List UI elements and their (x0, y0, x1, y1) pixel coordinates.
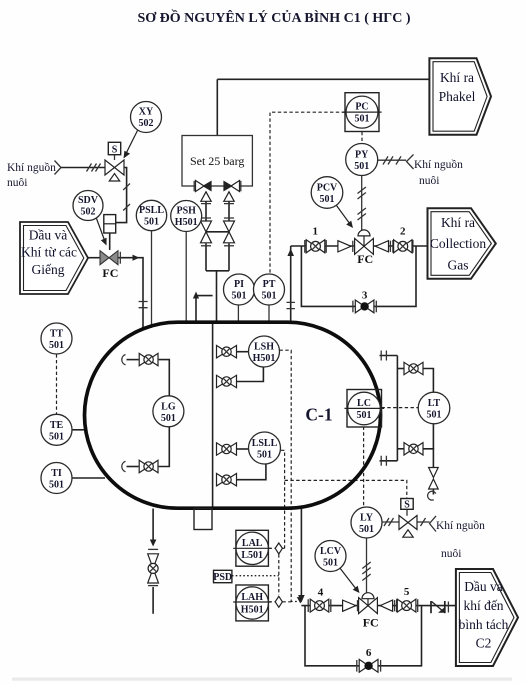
isolation valve PSV left leg (vertical bowtie) (201, 221, 212, 243)
wire dashed LAL to diamond (269, 547, 276, 549)
svg-text:XY: XY (139, 107, 154, 118)
wire dashed LC down to LY (363, 427, 365, 508)
svg-text:Khí nguồn: Khí nguồn (436, 519, 485, 532)
svg-text:khí đến: khí đến (463, 598, 503, 613)
instrument circle XY502 (131, 102, 162, 133)
wire from 3-way valve down to solenoid box (116, 168, 130, 223)
svg-text:TT: TT (50, 329, 64, 340)
svg-text:C-1: C-1 (305, 405, 332, 425)
tag SDV502 (78, 195, 99, 218)
wire dotted PSD interlock (232, 575, 279, 577)
wire standpipe branch 2 up to LSH (237, 367, 264, 381)
arrow PCV501 to control valve (337, 206, 354, 229)
tag TI501 (49, 468, 64, 491)
LT drain valve (two triangles) (429, 468, 439, 490)
instrument circle PY501 (346, 144, 378, 176)
wire PY to PCV control valve signal (358, 176, 366, 231)
flange tick after reducer (394, 600, 396, 611)
instrument circle PI501 (224, 274, 255, 305)
svg-text:LSLL: LSLL (252, 438, 278, 449)
instrument circle PSH H501 (171, 201, 202, 232)
svg-text:nuôi: nuôi (7, 177, 27, 189)
node Khi nguon nuoi left text (7, 161, 56, 189)
instrument circle PSLL501 (136, 200, 166, 230)
flag text Khi ra Phakel (439, 70, 476, 104)
flag text Khi ra Collection Gas (430, 215, 486, 273)
wire vessel liquid outlet down with arrow (298, 509, 305, 603)
instrument circle SDV502 (73, 191, 103, 221)
LG isolation valve bottom (139, 460, 158, 472)
wire dashed LSH interlock down (280, 350, 304, 603)
svg-text:Khí nguồn: Khí nguồn (7, 161, 56, 174)
flange tick after reducer (389, 241, 391, 252)
wire LT drain tail with cap (428, 489, 436, 500)
svg-text:PSD: PSD (213, 572, 232, 583)
instrument circle TI501 (41, 463, 72, 494)
svg-text:SDV: SDV (78, 195, 99, 206)
3-way valve XV on fuel gas line (105, 142, 124, 181)
standpipe valve LSH tap2 (217, 375, 237, 387)
svg-text:PI: PI (234, 279, 244, 290)
svg-text:LY: LY (360, 513, 374, 524)
wire PSH tap to vessel (185, 232, 187, 324)
wire dashed diamond to LSH line (282, 601, 291, 603)
tag XY502 (139, 107, 154, 130)
svg-text:PSLL: PSLL (139, 205, 164, 216)
wire standpipe branch to LSH (237, 351, 249, 353)
wire LY down to LCV valve signal (362, 538, 370, 593)
svg-text:H501: H501 (253, 353, 276, 364)
instrument circle TE501 (41, 414, 72, 445)
svg-text:Collection: Collection (430, 236, 486, 251)
tag TE501 (49, 420, 64, 443)
faint bottom caption band (12, 678, 512, 681)
wire bottom liquid line to C2 flag (301, 605, 458, 607)
wire stem solenoid box to SDV valve (109, 233, 111, 250)
valve 6 (bypass, closed) (357, 659, 381, 672)
wire PSV right leg (224, 192, 234, 271)
wire gas outlet riser with up arrow (287, 246, 295, 322)
wire dashed interlock to S box of LY valve (285, 480, 407, 498)
tag PC501 (355, 102, 370, 125)
instrument circle LY501 (351, 507, 382, 538)
wire level bridle riser (396, 356, 398, 461)
svg-text:501: 501 (320, 194, 335, 205)
svg-text:501: 501 (49, 480, 64, 491)
wire standpipe branch to LSLL (237, 448, 250, 450)
wire PSLL tap to vessel (151, 231, 153, 329)
svg-text:501: 501 (49, 432, 64, 443)
svg-text:TE: TE (50, 420, 64, 431)
wire flare header to Phakel flag (217, 78, 429, 80)
wire dashed TT to TE (56, 354, 58, 414)
wire level bridle bottom tap (380, 456, 398, 466)
svg-text:PT: PT (263, 279, 276, 290)
wire inlet pipe SDV valve to vessel with flow arrow (118, 255, 148, 330)
isolation valve PSV right leg (vertical bowtie) (224, 221, 235, 243)
svg-text:4: 4 (318, 587, 324, 599)
svg-text:S: S (112, 144, 118, 155)
vessel bottom nozzle box (194, 509, 212, 530)
PSV left on Set box (194, 181, 211, 202)
tag PSH H501 (175, 206, 198, 229)
tag PCV501 (317, 183, 338, 206)
svg-text:501: 501 (354, 161, 369, 172)
svg-text:H501: H501 (175, 217, 198, 228)
svg-text:PY: PY (355, 150, 369, 161)
svg-text:Giếng: Giếng (32, 262, 65, 277)
wire gas bypass with valve 3 (301, 246, 416, 306)
wire PSV equalizer between leg valves (206, 231, 229, 233)
svg-text:LSH: LSH (254, 342, 274, 353)
svg-text:5: 5 (404, 586, 410, 598)
flag text Dau va khi den binh tach C2 (459, 579, 509, 651)
instrument circle LSLL501 (249, 432, 281, 464)
svg-text:LT: LT (428, 398, 441, 409)
svg-text:501: 501 (262, 291, 277, 302)
reducer after PCV (375, 241, 388, 252)
wire dashed PC to PT (270, 112, 345, 273)
wire LG gauge loop top (122, 355, 170, 397)
LG isolation valve top (139, 353, 158, 365)
wire PI tap (237, 305, 239, 321)
svg-text:PCV: PCV (317, 183, 338, 194)
standpipe valve LSLL tap2 (217, 474, 237, 486)
svg-text:TI: TI (51, 468, 62, 479)
wire vessel drain with arrow (148, 509, 158, 550)
tag LAH H501 (241, 592, 264, 616)
standpipe valve LSH tap1 (217, 346, 237, 358)
svg-text:L501: L501 (241, 550, 263, 561)
3-way valve on LY fuel gas (399, 499, 417, 538)
instrument PC501 circle in square (342, 93, 381, 132)
svg-text:501: 501 (427, 410, 442, 421)
wire dashed LAH to diamond (269, 601, 276, 603)
tag LCV501 (320, 546, 342, 569)
svg-text:LC: LC (357, 398, 371, 409)
tag LY501 (359, 513, 374, 536)
svg-text:LAL: LAL (242, 538, 263, 549)
svg-text:Dầu và: Dầu và (29, 228, 68, 243)
valve 2 (globe) on gas line (393, 240, 413, 253)
wire main gas line to Collection flag (291, 245, 428, 247)
svg-text:501: 501 (257, 450, 272, 461)
valve 4 (globe) on liquid line (308, 599, 331, 612)
svg-text:Set 25 barg: Set 25 barg (190, 154, 244, 168)
vessel C-1 (85, 322, 381, 508)
control valve LCV with diaphragm FC (359, 593, 378, 614)
wire S box stem LY valve (406, 509, 408, 516)
svg-text:PSH: PSH (176, 206, 196, 217)
svg-text:Gas: Gas (448, 258, 469, 273)
instrument circle LSH H501 (249, 336, 280, 367)
svg-text:FC: FC (102, 266, 118, 280)
svg-text:C2: C2 (476, 636, 492, 651)
valve 5 (globe) on liquid line (397, 599, 418, 612)
svg-text:LG: LG (161, 402, 176, 413)
wire equalizer with up arrow (193, 292, 213, 323)
tag LG501 (161, 402, 176, 425)
bridle isolation valve top (404, 362, 423, 374)
diamond logic 1 (275, 543, 282, 554)
reducer before PCV (338, 241, 351, 252)
svg-text:501: 501 (232, 291, 247, 302)
reducer after LCV (380, 600, 392, 611)
tag LAL L501 (241, 538, 263, 561)
tag TT501 (49, 329, 64, 352)
arrow LCV501 to control valve (340, 568, 360, 594)
instrument circle LT501 (418, 392, 450, 424)
wire inlet pipe flag to SDV valve (88, 257, 101, 259)
svg-text:Khí nguồn: Khí nguồn (414, 158, 463, 171)
check valve before C2 flag (431, 601, 448, 613)
flange tick before PCV (352, 241, 354, 252)
wire level bridle top tap (380, 351, 398, 361)
flange tick before LCV (357, 600, 359, 611)
svg-text:501: 501 (357, 410, 372, 421)
tag LC501 (357, 398, 372, 421)
svg-text:Khí ra: Khí ra (440, 70, 474, 85)
shutdown valve FC (gray) on inlet (100, 251, 120, 265)
wire dashed PC to PY (361, 132, 363, 144)
wire bridle to LT bottom and drain (397, 448, 404, 450)
valve 3 (bypass, closed) (353, 300, 376, 313)
node Khi nguon nuoi right top text (414, 158, 463, 187)
svg-text:FC: FC (363, 616, 379, 630)
tag LT501 (427, 398, 442, 421)
svg-text:bình tách: bình tách (459, 617, 509, 632)
svg-text:LCV: LCV (320, 546, 342, 557)
svg-text:nuôi: nuôi (419, 175, 439, 187)
flag text Dau va Khi tu cac Gieng (21, 228, 77, 278)
Set 25 barg box (182, 136, 252, 187)
PSD box (213, 570, 232, 583)
svg-text:501: 501 (359, 524, 374, 535)
svg-text:501: 501 (49, 340, 64, 351)
wire PSV drop line into vessel (216, 271, 218, 323)
tag PT501 (262, 279, 277, 302)
wire TE to vessel (72, 429, 87, 431)
svg-text:2: 2 (400, 226, 406, 238)
svg-text:LAH: LAH (241, 592, 263, 603)
instrument LAH H501 circle in square (233, 585, 271, 621)
instrument circle LCV501 (315, 541, 346, 572)
wire LY to 3-way valve (382, 518, 400, 526)
wire TI to vessel (72, 477, 105, 479)
svg-text:501: 501 (323, 558, 338, 569)
wire standpipe branch 2 up to LSLL (237, 464, 266, 480)
svg-text:6: 6 (366, 647, 372, 659)
flag Dau va khi den binh tach C2 (456, 569, 518, 666)
instrument circle TT501 (41, 323, 72, 354)
flag Khi ra Phakel (429, 58, 491, 135)
flag Khi ra Collection Gas (428, 208, 496, 279)
wire internal standpipe (212, 321, 214, 509)
wire dashed LSLL interlock down (281, 450, 285, 548)
vessel drain globe valve (148, 554, 159, 583)
wire PT tap (268, 305, 270, 321)
tag PI501 (232, 279, 247, 302)
svg-text:1: 1 (312, 226, 318, 238)
standpipe valve LSLL tap1 (217, 443, 237, 455)
svg-text:Khí từ các: Khí từ các (21, 245, 77, 260)
wire flare riser from Set box to flare header (216, 79, 218, 135)
instrument circle PT501 (254, 274, 285, 305)
svg-text:501: 501 (161, 413, 176, 424)
wire PSV header bottom (206, 270, 229, 272)
reducer before LCV (343, 600, 356, 611)
instrument circle LG501 (153, 396, 184, 427)
svg-text:501: 501 (355, 114, 370, 125)
svg-text:S: S (404, 499, 410, 510)
PSV right on Set box (224, 181, 241, 202)
svg-text:SƠ ĐỒ NGUYÊN LÝ CỦA BÌNH C1 (: SƠ ĐỒ NGUYÊN LÝ CỦA BÌNH C1 ( HΓC ) (138, 8, 411, 26)
wire bridle to LT top (397, 368, 404, 370)
flag Dau va Khi tu cac Gieng (20, 222, 88, 294)
svg-text:502: 502 (139, 118, 154, 129)
instrument LAL L501 circle in square (233, 530, 271, 566)
arrow XY502 to 3-way valve (124, 131, 138, 159)
wire 3-way valve to Khi nguon nuoi bottom (417, 516, 436, 532)
svg-text:501: 501 (144, 217, 159, 228)
wire PY to Khi nguon nuoi right (378, 155, 414, 170)
wire LG gauge loop bottom (122, 427, 170, 472)
wire liquid bypass with valve 6 (305, 606, 422, 666)
valve 1 (globe) on gas line (305, 240, 326, 253)
svg-text:Phakel: Phakel (439, 89, 476, 104)
arrow SDV502 to shutdown valve (97, 219, 107, 246)
wire inlet line from Khi nguon nuoi to 3-way valve XV (55, 161, 106, 175)
tag LSLL501 (252, 438, 278, 461)
solenoid transfer box (104, 215, 116, 233)
control valve PCV with diaphragm FC (355, 230, 374, 254)
svg-text:Khí ra: Khí ra (441, 215, 475, 230)
wire PSV left leg (201, 192, 211, 271)
svg-text:Dầu và: Dầu và (464, 579, 503, 594)
svg-text:FC: FC (357, 252, 373, 266)
tag LSH H501 (253, 342, 276, 365)
instrument LC501 circle in square (345, 390, 385, 428)
svg-text:nuôi: nuôi (441, 548, 461, 560)
svg-text:H501: H501 (241, 605, 264, 616)
svg-text:502: 502 (81, 207, 96, 218)
wire dashed diamond column (278, 554, 280, 595)
diamond logic 2 (275, 596, 282, 607)
wire dashed diamond to LSLL line (282, 547, 284, 549)
tag PY501 (354, 150, 369, 173)
tag PSLL501 (139, 205, 164, 228)
bridle isolation valve bottom (404, 443, 423, 455)
svg-text:PC: PC (355, 102, 368, 113)
wire vessel drain tail (148, 586, 158, 614)
wire dashed LC to LT (382, 407, 419, 409)
node Khi nguon nuoi bottom text (436, 519, 485, 560)
svg-text:3: 3 (362, 290, 368, 302)
instrument circle PCV501 (311, 177, 343, 209)
